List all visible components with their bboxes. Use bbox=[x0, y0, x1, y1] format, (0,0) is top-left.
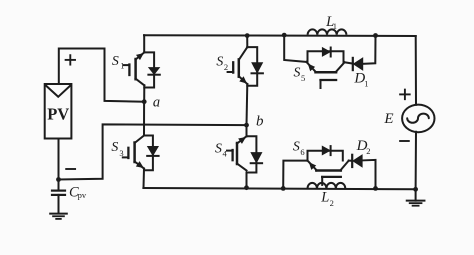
diode S6 parallel bbox=[322, 146, 330, 155]
label S4 bbox=[215, 140, 228, 158]
svg-text:S: S bbox=[112, 53, 119, 68]
wire S1 collector bbox=[143, 35, 145, 52]
inductor L1 bbox=[308, 29, 347, 34]
svg-text:2: 2 bbox=[330, 198, 334, 208]
svg-text:S: S bbox=[215, 140, 222, 155]
minus sign E bbox=[400, 140, 409, 142]
label S5 bbox=[294, 65, 306, 83]
node b bbox=[244, 123, 249, 128]
wire E bottom lead bbox=[415, 132, 417, 190]
svg-text:S: S bbox=[111, 139, 118, 154]
svg-text:1: 1 bbox=[364, 78, 368, 88]
wire S3 emitter bbox=[143, 169, 146, 189]
plus sign PV bbox=[66, 55, 75, 64]
label Cpv bbox=[69, 185, 87, 201]
label a bbox=[153, 95, 160, 111]
wire S4 emitter bbox=[246, 173, 248, 188]
label S3 bbox=[111, 139, 123, 158]
node L1 left bbox=[282, 33, 287, 38]
transistor S1 bbox=[124, 52, 160, 87]
wire S2 collector bbox=[246, 36, 248, 48]
plus sign E bbox=[400, 90, 410, 100]
node S4 bottom bbox=[244, 185, 249, 190]
node S2 top bbox=[245, 33, 250, 38]
svg-text:S: S bbox=[216, 53, 223, 68]
wire S6 to D2 bbox=[349, 160, 353, 162]
label D2 bbox=[356, 138, 371, 156]
label S2 bbox=[216, 53, 228, 72]
label L1 bbox=[325, 14, 337, 31]
node L1 right bbox=[373, 33, 378, 38]
source E circle bbox=[402, 105, 434, 133]
svg-text:E: E bbox=[383, 111, 393, 127]
wire ground stem bbox=[415, 189, 417, 200]
wire S5 to D1 bbox=[345, 62, 353, 63]
wire S2 emitter to node b bbox=[246, 84, 249, 125]
wire S1 emitter to node a bbox=[143, 85, 145, 101]
node a bbox=[142, 99, 147, 104]
wire node b to S4 bbox=[246, 125, 248, 136]
diode D1 bbox=[353, 58, 363, 70]
wire top rail bbox=[144, 34, 416, 37]
svg-text:2: 2 bbox=[366, 146, 370, 156]
svg-text:S: S bbox=[293, 139, 300, 154]
transistor S5 bbox=[306, 62, 344, 88]
label E bbox=[383, 111, 393, 127]
svg-text:PV: PV bbox=[47, 104, 69, 123]
node L2 left bbox=[281, 186, 286, 191]
svg-text:1: 1 bbox=[120, 60, 124, 70]
inductor L2 bbox=[308, 183, 346, 189]
label L2 bbox=[320, 190, 334, 208]
wire bottom rail bbox=[143, 188, 415, 189]
svg-text:6: 6 bbox=[300, 147, 304, 157]
label b bbox=[256, 114, 264, 130]
svg-text:1: 1 bbox=[333, 21, 337, 31]
svg-text:pv: pv bbox=[78, 190, 87, 200]
svg-text:3: 3 bbox=[119, 148, 123, 158]
svg-text:5: 5 bbox=[301, 73, 305, 83]
node ground right bbox=[413, 187, 418, 192]
wire L2 branch right bbox=[362, 160, 375, 189]
PV source box bbox=[45, 84, 72, 139]
svg-text:a: a bbox=[153, 95, 160, 111]
diode D2 bbox=[352, 155, 362, 167]
wire S6 diode loop bbox=[308, 151, 343, 161]
wire PV+ to node a bbox=[59, 49, 144, 102]
transistor S2 bbox=[228, 47, 263, 86]
ground right bbox=[407, 201, 425, 206]
wire node a to S3 bbox=[143, 102, 145, 136]
wire PV- to node b bbox=[59, 124, 247, 179]
label D1 bbox=[353, 70, 368, 88]
svg-text:b: b bbox=[256, 114, 264, 130]
minus sign PV bbox=[66, 168, 75, 170]
wire L1 branch right bbox=[363, 36, 376, 64]
capacitor Cpv bbox=[52, 180, 65, 214]
svg-text:2: 2 bbox=[224, 62, 228, 72]
transistor S6 bbox=[308, 161, 349, 185]
diode S5 parallel bbox=[322, 48, 330, 57]
node L2 right bbox=[373, 186, 378, 191]
node PV- bbox=[56, 177, 61, 182]
svg-text:S: S bbox=[294, 65, 301, 80]
svg-text:L: L bbox=[320, 190, 329, 206]
wire L1 branch left bbox=[284, 35, 306, 62]
wire S5 diode loop bbox=[308, 51, 344, 62]
wire PV- lead bbox=[58, 139, 60, 180]
label S1 bbox=[112, 53, 125, 70]
wire L2 branch left bbox=[283, 161, 307, 189]
transistor S4 bbox=[227, 136, 262, 172]
label S6 bbox=[293, 139, 305, 157]
ground left bbox=[50, 214, 67, 219]
wire E top lead bbox=[415, 36, 417, 105]
transistor S3 bbox=[123, 136, 159, 171]
